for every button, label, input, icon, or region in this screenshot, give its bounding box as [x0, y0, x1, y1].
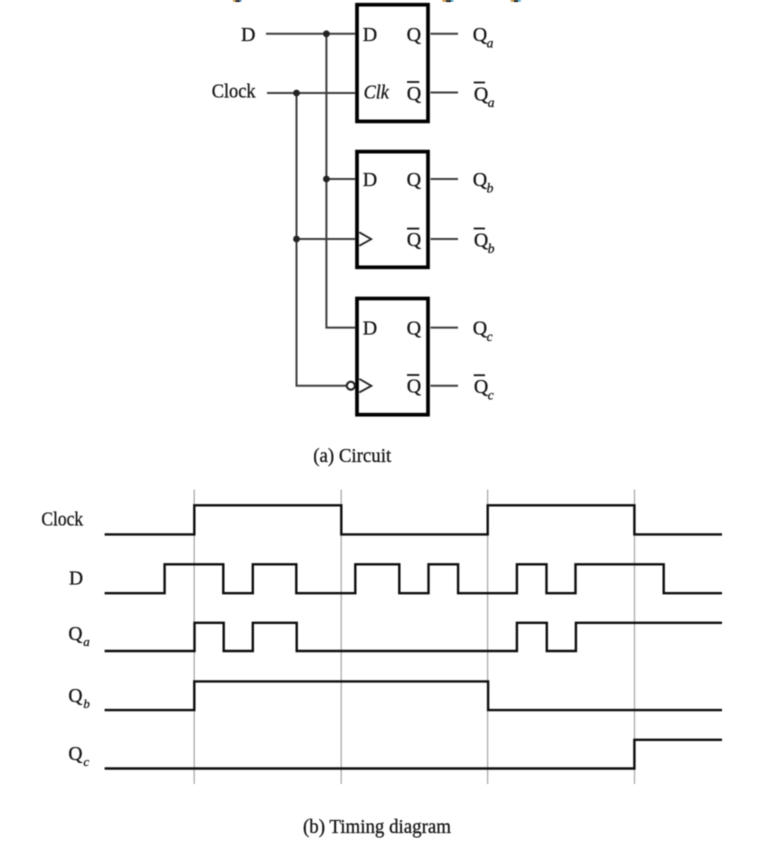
- svg-text:b: b: [83, 696, 90, 711]
- svg-text:c: c: [83, 754, 89, 769]
- svg-text:Q: Q: [407, 169, 422, 191]
- svg-text:Q: Q: [407, 83, 422, 105]
- svg-text:Q: Q: [474, 376, 489, 398]
- svg-text:c: c: [487, 329, 493, 344]
- svg-text:Q: Q: [473, 169, 488, 191]
- svg-text:D: D: [69, 568, 83, 589]
- svg-text:b: b: [487, 181, 494, 196]
- svg-text:Q: Q: [473, 24, 488, 46]
- svg-text:(b) Timing diagram: (b) Timing diagram: [303, 816, 451, 838]
- svg-text:Clock: Clock: [212, 81, 256, 103]
- svg-text:b: b: [488, 241, 495, 256]
- svg-text:Clk: Clk: [364, 82, 390, 104]
- svg-text:D: D: [241, 24, 255, 46]
- svg-text:a: a: [487, 35, 494, 50]
- svg-text:D: D: [363, 169, 377, 191]
- svg-text:Clock: Clock: [41, 510, 83, 531]
- svg-text:Q: Q: [407, 317, 422, 339]
- svg-text:Q: Q: [68, 686, 82, 707]
- svg-text:D: D: [363, 317, 377, 339]
- svg-text:Q: Q: [474, 229, 489, 251]
- svg-text:Q: Q: [473, 318, 488, 340]
- svg-text:Q: Q: [68, 744, 82, 765]
- svg-text:(a) Circuit: (a) Circuit: [313, 445, 391, 467]
- svg-text:Q: Q: [474, 83, 489, 105]
- svg-text:Q: Q: [407, 229, 422, 251]
- svg-text:Q: Q: [68, 624, 82, 645]
- svg-text:Q: Q: [407, 376, 422, 398]
- svg-text:c: c: [488, 387, 494, 402]
- svg-text:D: D: [363, 24, 377, 46]
- svg-text:Q: Q: [407, 24, 422, 46]
- svg-text:a: a: [488, 95, 495, 110]
- svg-text:a: a: [83, 634, 90, 649]
